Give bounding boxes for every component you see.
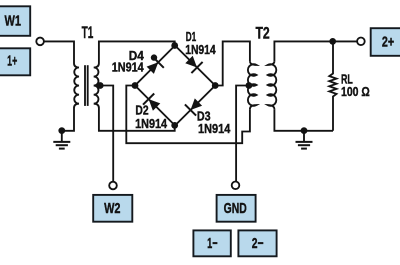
- terminal circle GND: [232, 182, 240, 190]
- diode D4: [147, 57, 164, 74]
- terminal box 2+: [371, 28, 400, 56]
- svg-text:D2: D2: [135, 104, 148, 118]
- svg-text:2−: 2−: [252, 236, 264, 252]
- junction dot RL top: [329, 38, 336, 45]
- label D2: [135, 104, 167, 131]
- terminal circle 2+: [357, 38, 365, 46]
- diode D1: [185, 56, 202, 73]
- label RL: [341, 72, 370, 99]
- svg-text:W2: W2: [104, 201, 120, 217]
- transformer T1 secondary winding: [94, 62, 99, 109]
- svg-text:100 Ω: 100 Ω: [341, 85, 370, 99]
- terminal circle W2: [109, 182, 117, 190]
- node bottom vertex: [171, 122, 178, 129]
- svg-text:1−: 1−: [207, 236, 218, 252]
- svg-text:GND: GND: [224, 201, 247, 217]
- svg-text:D1: D1: [186, 30, 197, 44]
- wire T1 secondary bottom to diamond bottom: [99, 108, 175, 131]
- wire diamond left vertex to T2 primary bottom: [126, 86, 250, 144]
- cathode dot D4: [151, 54, 157, 60]
- diamond ring wires: [135, 46, 215, 126]
- label D3: [197, 110, 230, 136]
- terminal box W2: [93, 195, 132, 222]
- node right vertex: [212, 82, 219, 89]
- wire T1 center tap to W2: [100, 86, 113, 182]
- wire diamond right vertex to T2 primary top: [215, 41, 250, 85]
- diode D2: [143, 94, 160, 111]
- transformer T2 secondary winding: [268, 61, 277, 109]
- ground symbol right: [296, 131, 313, 149]
- label D4: [112, 49, 144, 75]
- label D1: [185, 30, 216, 57]
- svg-text:W1: W1: [5, 14, 22, 30]
- diode D3: [185, 98, 202, 115]
- terminal box 1+: [0, 48, 30, 75]
- svg-text:T2: T2: [255, 24, 269, 42]
- transformer T2 primary winding: [248, 61, 257, 109]
- terminal box GND: [217, 195, 256, 222]
- terminal box 1-: [193, 230, 230, 256]
- terminal box 2-: [238, 230, 276, 256]
- node left vertex: [132, 82, 139, 89]
- svg-text:1N914: 1N914: [112, 61, 144, 75]
- wire T2 center tap to GND: [236, 86, 249, 182]
- wire T1 primary bottom to ground: [62, 108, 74, 131]
- svg-text:1N914: 1N914: [185, 43, 216, 57]
- svg-text:2+: 2+: [382, 34, 394, 50]
- transformer T1 primary winding: [74, 62, 79, 109]
- resistor RL: [329, 41, 336, 130]
- terminal circle W1/1+: [36, 38, 44, 46]
- transformer T1 core: [85, 65, 88, 106]
- wire W1 to T1 primary top: [44, 41, 74, 61]
- junction dot ground right: [301, 127, 308, 134]
- ground symbol left: [53, 131, 70, 149]
- svg-text:1+: 1+: [7, 54, 17, 70]
- junction dot T2 center tap: [246, 82, 253, 89]
- wire T2 secondary top to output: [274, 41, 357, 61]
- terminal box W1: [0, 6, 30, 36]
- svg-text:1N914: 1N914: [135, 117, 167, 131]
- junction dot T1 center tap: [97, 82, 104, 89]
- svg-text:T1: T1: [82, 24, 94, 42]
- svg-text:1N914: 1N914: [198, 122, 230, 136]
- junction dot ground T1: [58, 127, 65, 134]
- wire T1 secondary top to diamond top: [99, 41, 175, 61]
- wire T2 secondary bottom to ground rail: [274, 109, 333, 131]
- node top vertex: [171, 42, 178, 49]
